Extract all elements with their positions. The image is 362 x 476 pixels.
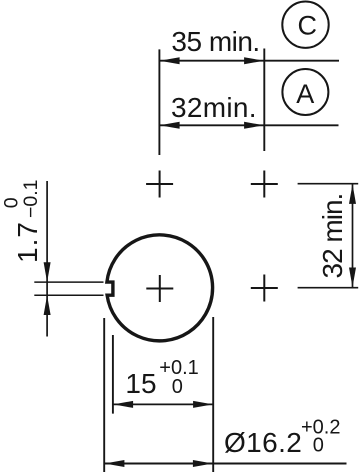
svg-text:Ø16.2: Ø16.2: [224, 427, 302, 458]
svg-text:0: 0: [313, 435, 324, 457]
svg-text:1.7: 1.7: [12, 221, 43, 263]
svg-text:A: A: [296, 79, 314, 109]
svg-text:32 min.: 32 min.: [317, 194, 348, 279]
svg-text:−0.1: −0.1: [20, 180, 42, 219]
svg-text:0: 0: [172, 376, 183, 398]
svg-text:C: C: [298, 10, 318, 40]
svg-text:15: 15: [125, 368, 156, 399]
svg-text:32min.: 32min.: [171, 92, 257, 123]
svg-text:35 min.: 35 min.: [171, 26, 259, 57]
